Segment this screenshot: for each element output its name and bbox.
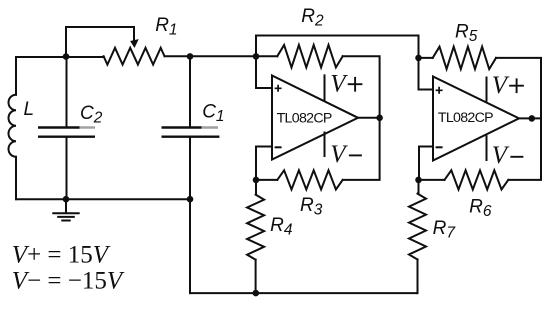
wire R1 bypass — [66, 27, 134, 57]
op1 minus mark — [275, 146, 282, 148]
op-amp U1 power pins — [324, 75, 326, 156]
capacitor C2 stem — [66, 57, 68, 199]
inductor L — [8, 95, 16, 157]
node R4 bottom — [253, 290, 260, 297]
wire bottom rail — [190, 292, 417, 294]
resistor R5 — [433, 47, 496, 69]
wire op2 output — [519, 117, 541, 119]
R1 wiper arrow head — [131, 40, 139, 48]
wire R5 lead from plus node — [419, 57, 433, 59]
wire left vertical to inductor — [15, 57, 17, 95]
node op1 minus — [253, 177, 260, 184]
capacitor C1 stem — [189, 56, 191, 199]
resistor R7 — [418, 180, 420, 194]
wire top-left rail — [16, 56, 104, 58]
capacitor C2 plates — [38, 126, 80, 128]
ground symbol — [65, 199, 67, 212]
node ground junction — [63, 196, 70, 203]
wire R2 right to output vertical — [343, 56, 380, 180]
wire R5 right to output vertical op2 — [496, 58, 541, 180]
svg-text:L: L — [24, 99, 35, 120]
node C1 bottom — [187, 196, 194, 203]
resistor R6 — [445, 170, 509, 189]
wire ground rail — [16, 198, 190, 200]
op1 plus mark — [275, 85, 282, 92]
svg-text:V− = −15V: V− = −15V — [12, 268, 125, 295]
op-amp U1 triangle — [272, 76, 358, 160]
wire op1 minus input — [256, 147, 272, 180]
wire op1 plus input — [256, 56, 272, 88]
wire inductor bottom — [15, 157, 17, 199]
resistor R3 — [277, 170, 342, 189]
op2 minus mark — [436, 146, 443, 148]
wire R1 right to op1 plus node — [165, 55, 278, 57]
wire top link between op-amp plus nodes — [256, 36, 419, 58]
node op1 output — [376, 115, 383, 122]
node op1 plus — [253, 53, 260, 60]
wire R3 left to minus node — [256, 179, 277, 181]
wire op2 plus input — [419, 58, 434, 90]
wire bottom left vertical — [189, 199, 191, 293]
wire op2 minus input — [419, 147, 433, 180]
op-amp U2 power pins — [486, 78, 488, 161]
node C1 top — [187, 53, 194, 60]
wire R6 left to minus node op2 — [419, 179, 445, 181]
node op2 plus — [415, 55, 422, 62]
svg-text:TL082CP: TL082CP — [438, 110, 493, 126]
svg-text:V+ = 15V: V+ = 15V — [12, 242, 111, 269]
op-amp U2 triangle — [433, 77, 519, 161]
wire op1 output — [358, 117, 380, 119]
node A (L/C2/R1/bypass) — [63, 53, 70, 60]
node op2 output — [529, 115, 536, 122]
op2 plus mark — [436, 87, 443, 94]
capacitor C1 plates — [162, 126, 202, 128]
node op2 minus — [415, 177, 422, 184]
resistor R1 — [104, 48, 165, 65]
resistor R4 — [255, 180, 257, 195]
svg-text:TL082CP: TL082CP — [277, 110, 332, 126]
resistor R2 — [277, 45, 342, 67]
